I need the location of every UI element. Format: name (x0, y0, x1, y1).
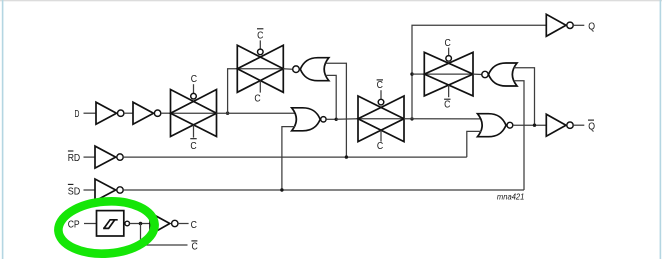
junction C node (139, 222, 143, 226)
svg-text:C: C (444, 100, 451, 111)
NOR gate N4 (slave input gate, points right) (478, 114, 513, 137)
wire n2 to TG3 (336, 118, 358, 121)
wire NOR1 top input to RD line (326, 63, 347, 157)
wire Cbar branch (141, 224, 188, 246)
svg-text:Q: Q (588, 21, 595, 32)
wire SD input (84, 189, 96, 191)
wire NOR1 bottom input to node n2 (326, 75, 337, 119)
wire TG2 to NOR1 output bubble (283, 68, 292, 70)
label C (TG4 top control) (445, 38, 452, 49)
wire tap to TG4 (412, 73, 424, 75)
svg-text:mna421: mna421 (497, 193, 525, 202)
Schmitt trigger U7 (97, 211, 130, 236)
wire U1 to U2 (124, 112, 133, 114)
wire NOR4 bottom input from RD line (467, 131, 482, 157)
svg-text:C: C (190, 141, 197, 152)
svg-text:C: C (445, 38, 452, 49)
transmission gate TG4 (424, 48, 473, 98)
left blue page edge (2, 0, 4, 259)
green annotation ellipse (57, 198, 157, 257)
label Cbar (TG1 bottom control) (190, 139, 197, 152)
wire U2 to TG1 (161, 112, 171, 114)
svg-text:D: D (75, 109, 80, 120)
svg-text:Q: Q (588, 121, 595, 132)
junction NOR4 output (533, 124, 536, 127)
svg-text:C: C (191, 220, 198, 231)
right blue page edge (660, 0, 662, 259)
label Cbar (TG2 top control) (257, 29, 264, 42)
svg-text:C: C (192, 241, 199, 252)
wire NOR3 top input to NOR4 output (514, 68, 535, 125)
inverter U2 (D buffer 2) (133, 102, 161, 124)
inverter U6 (SD) (95, 179, 123, 201)
wire n1 to NOR2 (217, 112, 295, 114)
svg-text:C: C (254, 94, 261, 105)
label C (clock true) (191, 220, 198, 231)
wire NOR3 bottom input to SD line (514, 81, 524, 190)
inverter U4 (Qbar output) (546, 114, 584, 136)
svg-text:C: C (377, 80, 384, 91)
junction node n3 (410, 117, 413, 120)
inverter U5 (RD) (95, 146, 123, 168)
wire n1 up to TG2 (228, 69, 238, 113)
wire NOR2 output to n2 (326, 118, 336, 120)
inverter U1 (D buffer 1) (96, 102, 124, 124)
junction node n2 (335, 118, 338, 121)
NOR gate N3 (slave feedback, points left) (482, 63, 517, 86)
label Qbar (588, 120, 595, 132)
junction TG4 tap (410, 72, 413, 75)
svg-text:SD: SD (68, 186, 81, 197)
label Cbar (TG4 bottom control) (444, 99, 451, 110)
junction SD to NOR2 (280, 188, 283, 191)
wire n3 to NOR4 (404, 118, 481, 120)
wire n3 up to Q line (412, 25, 546, 119)
NOR gate N1 (master feedback, points left) (293, 58, 329, 81)
label Cbar (TG3 top control) (377, 80, 384, 91)
junction RD to NOR1 (345, 155, 348, 158)
label Q (588, 21, 595, 32)
svg-text:C: C (191, 74, 198, 85)
transmission gate TG1 (171, 84, 217, 137)
junction node n1 (226, 112, 229, 115)
wire D input (84, 112, 97, 114)
wire TG4 to NOR3 output bubble (473, 73, 482, 75)
svg-text:CP: CP (68, 220, 80, 231)
transmission gate TG2 (237, 40, 283, 92)
top faint border line (0, 0, 662, 1)
label CP input (68, 220, 80, 231)
label C (TG2 bottom control) (254, 94, 261, 105)
svg-text:C: C (257, 31, 264, 42)
wire NOR2 bottom input from SD line (282, 127, 295, 190)
inverter U3 (Q output) (546, 14, 584, 36)
wire RD input (84, 156, 96, 158)
transmission gate TG3 (358, 90, 404, 141)
wire Schmitt to C inverter (130, 223, 151, 225)
svg-text:RD: RD (68, 153, 81, 164)
label C (TG1 top control) (191, 74, 198, 85)
wire NOR4 output to Qbar inverter (513, 124, 547, 126)
node D label (75, 109, 80, 120)
inverter U8 (C buffer) (150, 213, 189, 235)
label Cbar (clock complement) (191, 241, 198, 252)
wire RD line (123, 156, 467, 158)
wire CP input (84, 223, 97, 225)
label RDbar input (68, 151, 81, 164)
svg-text:C: C (377, 141, 384, 152)
label mna421 (497, 193, 525, 202)
label SDbar input (68, 184, 81, 197)
label C (TG3 bottom control) (377, 141, 384, 152)
wire SD line (123, 189, 524, 191)
NOR gate N2 (master input gate, points right) (292, 108, 326, 131)
